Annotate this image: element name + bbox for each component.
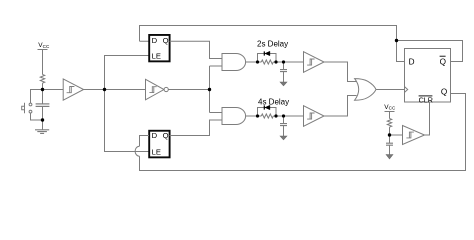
rail node D vertical (209, 66, 211, 113)
latch U3 labels (152, 131, 169, 157)
ground arrow for C2 (280, 82, 287, 86)
d-latch U2 box (149, 35, 169, 61)
diode D2 branch wires (258, 108, 277, 117)
dff clock triangle (405, 87, 408, 93)
capacitor C2 (280, 62, 287, 82)
resistor R1 (40, 75, 44, 84)
ground GND1 (35, 130, 49, 134)
power VCC2 bar (385, 112, 395, 119)
svg-text:Q: Q (441, 88, 447, 97)
node D junction dot (208, 88, 211, 91)
svg-text:Q: Q (163, 131, 169, 140)
node A junction dot (41, 88, 44, 91)
svg-text:D: D (409, 58, 415, 67)
diode D1 branch wires (258, 54, 277, 63)
wire R3 to schmitt U8 (273, 115, 303, 117)
wire node A to buffer U1 input (43, 89, 64, 91)
schmitt buffer U7 (304, 52, 325, 73)
wire rail to AND U4 input 2 (210, 65, 223, 67)
diode D2 (264, 105, 270, 109)
schmitt buffer U11 (403, 126, 425, 145)
wire R1 to node A (42, 83, 44, 89)
wire DFF CLR from U11 (425, 102, 430, 135)
schmitt buffer U8 (304, 106, 325, 127)
and gate U4 (222, 54, 246, 71)
delay1 node dots (256, 60, 259, 63)
dff Qbar overline (440, 55, 446, 57)
capacitor C4 (386, 135, 393, 155)
or gate U9 (355, 79, 376, 101)
dff U10 labels (409, 58, 448, 105)
wire R2 to schmitt U7 (273, 61, 303, 63)
wire U1 output to node C and inverter U5 (84, 89, 146, 91)
capacitor C1 (36, 90, 50, 121)
diode D1 (264, 51, 270, 55)
svg-text:2s Delay: 2s Delay (257, 39, 288, 48)
Qbar net junction dot (395, 39, 398, 42)
node E junction dot (388, 133, 391, 136)
svg-text:LE: LE (152, 52, 161, 61)
wire hop of feedback vertical over LE wire (135, 146, 139, 156)
wire U2 Q to AND U4 input 1 (170, 41, 223, 58)
resistor R2 (261, 60, 273, 64)
wire U3 Q to AND U6 input 2 (170, 120, 223, 136)
node B junction dot (41, 118, 44, 121)
wire U5 output to node D (168, 89, 209, 91)
svg-text:LE: LE (152, 148, 161, 157)
wire Qbar branch across DFF top (397, 41, 463, 62)
ground arrow for C4 (386, 155, 393, 159)
power VCC1 bar (38, 50, 48, 75)
d-latch U3 box (149, 131, 169, 158)
wire U7 to OR U9 input 1 (324, 62, 357, 82)
wire U4 output to delay net 1 (246, 61, 262, 63)
schmitt buffer U1 (63, 79, 83, 100)
wire node A to switch SW1 (31, 90, 43, 104)
svg-text:VCC: VCC (384, 104, 396, 111)
node C junction dot (103, 88, 106, 91)
capacitor C3 (280, 116, 287, 136)
svg-text:4s Delay: 4s Delay (258, 97, 289, 106)
svg-text:D: D (152, 36, 158, 45)
svg-text:D: D (152, 131, 158, 140)
delay2 node dots (256, 114, 259, 117)
wire R4 to node E (389, 127, 391, 135)
svg-text:VCC: VCC (38, 42, 50, 49)
svg-text:Q: Q (440, 58, 446, 67)
wire node B to ground (42, 120, 44, 130)
dff U10 box (405, 49, 451, 103)
wire node E to schmitt U11 (390, 134, 403, 136)
wire U8 to OR U9 input 2 (324, 96, 357, 117)
svg-text:CLR: CLR (419, 96, 433, 105)
and gate U6 (222, 108, 246, 125)
schmitt inverter U5 (146, 79, 169, 100)
wire DFF Q to bottom feedback rail (140, 94, 466, 171)
latch U2 labels (152, 36, 169, 60)
wire node C down toward U3 LE (105, 90, 150, 152)
wire node C up to U2 LE (105, 56, 150, 90)
resistor R3 (261, 114, 273, 118)
wire U6 output to delay net 2 (246, 115, 262, 117)
resistor R4 (387, 119, 391, 128)
pushbutton SW1 (22, 103, 32, 113)
dff CLR overline (419, 95, 433, 97)
wire U9 output to DFF clock (376, 89, 405, 91)
wire Qbar feedback top rail to U2 D (140, 26, 405, 62)
svg-text:Q: Q (163, 36, 169, 45)
wire rail to AND U6 input 1 (210, 112, 223, 114)
ground arrow for C3 (280, 136, 287, 140)
wire SW1 to node B (31, 113, 43, 120)
